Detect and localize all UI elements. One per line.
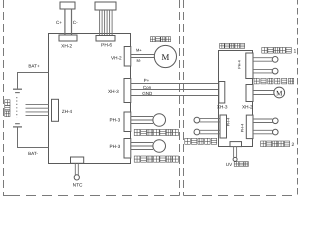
- brush control board outline: [219, 51, 253, 147]
- connector PH-3 socket (upper lamp): [124, 112, 131, 132]
- wires UV lamp (2): [234, 147, 237, 158]
- wire P+: [131, 83, 219, 85]
- label C+: [56, 20, 62, 25]
- svg-text:GND: GND: [142, 91, 153, 96]
- label Con: [143, 85, 152, 90]
- label XH-2 (vibration motor): [242, 105, 253, 110]
- probe pins distance sensor 2a: [253, 119, 273, 123]
- svg-text:M: M: [161, 52, 169, 62]
- svg-text:2: 2: [292, 142, 295, 148]
- probe tip dust sensor a: [194, 117, 200, 123]
- label brush vibration motor (CJK): [254, 78, 294, 84]
- tricolor lamp 2: [153, 140, 166, 153]
- svg-text:UV: UV: [226, 162, 233, 167]
- battery negative plate: [15, 92, 20, 94]
- wires PH-6 (6 conductors): [100, 10, 113, 36]
- wires NTC (2): [75, 163, 78, 175]
- svg-text:ZH-4: ZH-4: [62, 109, 73, 114]
- svg-text:PH-3: PH-3: [110, 118, 121, 123]
- battery plate (lower short): [15, 123, 20, 125]
- label PH-4 (distance sensor 1, rotated): [238, 60, 242, 68]
- svg-text:C-: C-: [73, 20, 78, 25]
- connector PH-4 socket (distance sensor 2): [246, 115, 253, 139]
- label XH-3 (main board): [108, 89, 119, 94]
- label C-: [73, 20, 78, 25]
- connector PH-4 socket (dust sensor): [220, 115, 227, 138]
- svg-text:XH-2: XH-2: [61, 44, 72, 50]
- connector XH-2 socket on board: [59, 35, 77, 41]
- NTC thermistor bead: [74, 175, 79, 180]
- connector XH-3 socket on brush board: [219, 82, 225, 104]
- label XH-3 (brush board): [217, 105, 228, 110]
- svg-text:PH-4: PH-4: [238, 60, 242, 68]
- label dust sensor (CJK): [185, 138, 217, 144]
- svg-text:M-: M-: [136, 58, 141, 63]
- tricolor lamp 1: [153, 114, 166, 127]
- bottom dashed border of station zone: [3, 195, 180, 197]
- connector ZH-4 socket: [52, 99, 59, 121]
- svg-text:VH-2: VH-2: [111, 55, 122, 60]
- battery plate (lower long): [13, 126, 22, 128]
- label BAT+: [28, 64, 40, 69]
- probe tip distance sensor 2b: [273, 129, 279, 135]
- label PH-3 (upper): [110, 118, 121, 123]
- connector XH-3 socket on main board: [124, 79, 131, 103]
- main control board outline: [49, 34, 131, 164]
- svg-text:P+: P+: [144, 78, 150, 83]
- svg-text:XH-3: XH-3: [217, 105, 228, 110]
- label GND: [142, 91, 153, 96]
- probe pins distance sensor 1b: [253, 69, 272, 73]
- label NTC: [73, 183, 83, 189]
- wire C-: [71, 9, 73, 35]
- label PH-6: [101, 43, 112, 49]
- probe pins distance sensor 2b: [253, 130, 273, 134]
- label distance sensor 1 (CJK): [262, 47, 297, 54]
- connector socket UV (bottom of brush board): [230, 142, 242, 147]
- wire C+: [64, 9, 66, 35]
- wire BAT-: [18, 128, 49, 148]
- connector PH-6 socket on board: [96, 36, 115, 42]
- svg-text:BAT+: BAT+: [28, 64, 40, 69]
- suction motor M1: [154, 45, 176, 67]
- svg-text:NTC: NTC: [73, 183, 83, 189]
- connector PH-4 socket (distance sensor 1): [246, 53, 253, 79]
- label M+: [136, 48, 142, 53]
- probe pins dust sensor b: [200, 130, 220, 134]
- wires battery sense (4): [26, 105, 50, 116]
- label dust-level tricolor lamp 2 (CJK): [134, 156, 178, 162]
- wire Con: [131, 89, 219, 91]
- probe tip dust sensor b: [194, 129, 200, 135]
- label BAT-: [28, 151, 38, 156]
- probe pins dust sensor a: [200, 118, 220, 122]
- svg-text:PH-4: PH-4: [227, 118, 231, 126]
- left dashed border of brush zone: [183, 0, 185, 196]
- svg-text:M: M: [276, 89, 283, 97]
- label ZH-4: [62, 109, 73, 114]
- battery positive plate: [13, 88, 22, 90]
- wires tricolor lamp 1 (3): [131, 117, 153, 124]
- label XH-2: [61, 44, 72, 50]
- UV lamp bead: [233, 157, 237, 161]
- svg-text:1: 1: [294, 48, 297, 54]
- wires tricolor lamp 2 (3): [131, 143, 153, 150]
- svg-text:XH-2: XH-2: [242, 105, 253, 110]
- label M-: [136, 58, 141, 63]
- connector XH-2 mating plug (top): [60, 2, 75, 9]
- label dust-level tricolor lamp 1 (CJK): [134, 129, 178, 135]
- wire M-: [131, 57, 155, 59]
- probe tip distance sensor 2a: [273, 118, 279, 124]
- svg-text:XH-3: XH-3: [108, 89, 119, 94]
- label distance sensor 2 (CJK): [261, 141, 295, 148]
- probe tip distance sensor 1b: [272, 68, 278, 74]
- probe pins distance sensor 1a: [253, 58, 272, 62]
- wire BAT+: [18, 73, 49, 89]
- svg-text:M+: M+: [136, 48, 142, 53]
- right dashed border of brush zone: [297, 0, 299, 196]
- probe tip distance sensor 1a: [272, 57, 278, 63]
- label UV indicator lamp: [226, 162, 249, 167]
- label P+: [144, 78, 150, 83]
- label brush control board (CJK): [220, 43, 245, 48]
- label PH-3 (lower): [110, 144, 121, 149]
- svg-text:C+: C+: [56, 20, 62, 25]
- connector VH-2 socket: [124, 47, 131, 67]
- bottom dashed border of brush zone: [184, 195, 298, 197]
- label suction motor (CJK): [150, 37, 170, 42]
- svg-text:PH-3: PH-3: [110, 144, 121, 149]
- wire M+: [131, 54, 155, 56]
- connector XH-2 socket (vibration motor): [246, 85, 253, 102]
- svg-text:PH-6: PH-6: [101, 43, 112, 49]
- svg-text:BAT-: BAT-: [28, 151, 38, 156]
- right dashed border of station zone: [179, 0, 181, 196]
- label PH-4 (dust sensor, rotated): [227, 118, 231, 126]
- label VH-2: [111, 55, 122, 60]
- left dashed border of station zone: [3, 0, 5, 196]
- battery dotted cells: [16, 97, 18, 118]
- wire GND: [131, 95, 219, 97]
- connector PH-3 socket (lower lamp): [124, 139, 131, 159]
- wires vibration motor (2): [253, 91, 274, 95]
- label PH-4 (distance sensor 2, rotated): [240, 124, 244, 132]
- svg-text:PH-4: PH-4: [240, 124, 244, 132]
- connector PH-6 mating plug (top): [95, 2, 116, 10]
- label battery pack (vertical CJK): [5, 100, 10, 117]
- svg-text:Con: Con: [143, 85, 152, 90]
- vibration motor M2: [274, 87, 285, 98]
- connector NTC socket (bottom): [71, 157, 84, 163]
